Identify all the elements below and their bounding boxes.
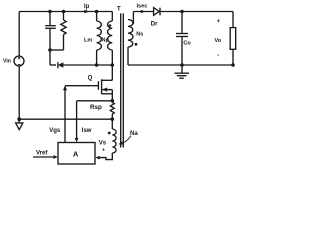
svg-text:Ns: Ns bbox=[136, 32, 143, 38]
svg-text:Q: Q bbox=[88, 75, 93, 81]
svg-text:+: + bbox=[217, 19, 221, 25]
svg-text:T: T bbox=[117, 7, 121, 13]
svg-text:Lm: Lm bbox=[84, 37, 92, 43]
svg-text:A: A bbox=[73, 149, 79, 158]
svg-text:Vo: Vo bbox=[215, 38, 222, 44]
svg-text:Vref: Vref bbox=[36, 151, 48, 157]
svg-text:Co: Co bbox=[183, 41, 191, 47]
svg-text:Na: Na bbox=[130, 131, 138, 137]
svg-text:Isec: Isec bbox=[137, 3, 148, 9]
svg-text:-: - bbox=[217, 53, 219, 59]
svg-text:+: + bbox=[102, 148, 105, 154]
svg-text:Rsp: Rsp bbox=[90, 104, 102, 111]
svg-text:Dr: Dr bbox=[151, 22, 158, 28]
svg-text:Vgs: Vgs bbox=[49, 128, 61, 134]
svg-text:Vin: Vin bbox=[3, 59, 11, 65]
svg-text:Vs: Vs bbox=[99, 140, 107, 146]
svg-text:Isw: Isw bbox=[82, 128, 92, 134]
svg-text:Np: Np bbox=[102, 38, 110, 44]
svg-text:Ip: Ip bbox=[84, 4, 90, 10]
